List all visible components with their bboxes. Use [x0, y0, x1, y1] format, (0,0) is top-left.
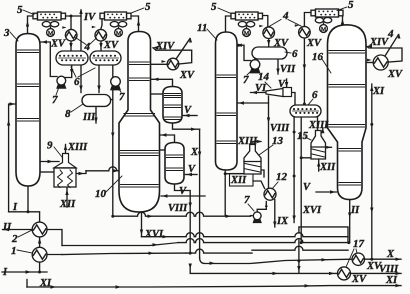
wire drum 6b drain a: [293, 117, 295, 223]
wire exchanger 4a top stub: [70, 16, 72, 30]
wire X line vertical: [199, 129, 201, 258]
svg-text:XI: XI: [39, 278, 52, 289]
wire stripper B bottoms: [175, 184, 191, 253]
wire column 16 draw to exchanger 16: [366, 62, 374, 64]
wire XIV return arrow into column 10: [153, 46, 159, 49]
pump 7a: [57, 83, 65, 88]
exchanger 1: [32, 247, 47, 262]
wire stripper A bottoms to X line: [173, 123, 200, 129]
svg-text:II: II: [350, 205, 360, 216]
wire furnace 13 outlet: [253, 170, 265, 189]
svg-text:7: 7: [52, 94, 58, 106]
svg-text:V: V: [188, 164, 196, 175]
svg-text:7: 7: [243, 74, 249, 86]
svg-text:VIII: VIII: [379, 264, 399, 275]
svg-text:6: 6: [292, 48, 298, 60]
condenser 5d: [311, 10, 316, 16]
wire exchanger 4b to drum B: [100, 42, 102, 52]
stripper 14b trays: [167, 154, 183, 156]
wire exchanger 4a to drum A: [70, 42, 72, 52]
wire bus B corner up: [299, 227, 348, 243]
svg-text:M: M: [48, 31, 54, 37]
wire flue XIII furnace 15: [322, 128, 324, 132]
svg-text:10: 10: [95, 188, 107, 200]
svg-text:XIII: XIII: [308, 120, 329, 131]
wire column 10 overhead riser: [131, 16, 139, 33]
wire XI riser right: [371, 84, 373, 259]
pump 7d: [253, 218, 260, 222]
svg-text:17: 17: [353, 238, 365, 250]
wire exchanger 2 to left riser: [9, 212, 40, 222]
column 10 tower: [119, 32, 160, 213]
wire drum 6b drain b: [300, 117, 302, 243]
svg-text:XV: XV: [366, 261, 382, 272]
wire steam XII into furnace 15: [318, 160, 320, 171]
wire column 11 bottoms to furnace 13: [225, 173, 244, 175]
wire pump 7d discharge to exchanger 12: [257, 202, 266, 213]
condenser 5a: [33, 13, 38, 19]
svg-text:II: II: [2, 222, 12, 233]
stripper 14b: [165, 143, 184, 185]
condenser 5b: [100, 13, 105, 19]
svg-text:V: V: [303, 182, 311, 193]
wire column 3 to reboiler: [40, 161, 59, 163]
wire column 10 draw to stripper A: [151, 93, 164, 95]
wire bus C continued: [186, 249, 252, 253]
wire drum 8 to pump line: [110, 99, 113, 101]
svg-text:XII: XII: [59, 199, 76, 210]
wire drum A to drum 8: [80, 65, 82, 93]
wire bus C: [62, 253, 186, 254]
drum 6b: [290, 105, 321, 117]
wire feed I inlet bottom left: [2, 271, 47, 273]
condenser 5c: [231, 13, 236, 19]
exchanger 17a: [352, 253, 364, 265]
svg-text:5: 5: [17, 4, 23, 16]
wire line y215.6 into pump 7d: [251, 215, 253, 217]
wire exchanger 4d to drum 6b: [303, 38, 305, 105]
svg-text:XIV: XIV: [155, 41, 175, 52]
reboiler 9 neck: [54, 154, 76, 168]
wire bus XVI: [142, 233, 349, 237]
svg-text:IV: IV: [83, 12, 96, 23]
svg-text:12: 12: [276, 171, 288, 183]
svg-text:5: 5: [145, 1, 151, 13]
wire pump 7c reflux to column 11: [235, 45, 251, 60]
svg-text:XV: XV: [387, 69, 403, 80]
wire bus C right part: [252, 246, 348, 250]
svg-text:5: 5: [211, 1, 217, 13]
fan and motor 5d: [315, 18, 323, 23]
svg-text:XV: XV: [103, 40, 119, 51]
wire bus B hot stream: [62, 243, 178, 246]
svg-text:V: V: [184, 105, 192, 116]
wire column 11 side line: [237, 102, 269, 104]
wire steam V into stripper A: [183, 115, 197, 117]
wire exchanger to loop right side: [156, 50, 192, 64]
wire XIV return bend: [153, 48, 156, 50]
wire line y216: [113, 212, 251, 216]
reflux drum 6a: [252, 47, 287, 59]
svg-text:XV: XV: [351, 274, 367, 285]
wire product II from exchanger 2: [3, 229, 33, 231]
stripper 14a trays: [165, 93, 181, 95]
svg-text:M: M: [244, 31, 250, 37]
svg-text:4: 4: [84, 41, 91, 53]
pump 7c: [250, 67, 259, 73]
wire drum B to drum 8: [98, 65, 100, 93]
svg-text:6: 6: [74, 76, 80, 88]
wire exchanger 16 loop: [367, 46, 403, 62]
svg-text:XVI: XVI: [302, 205, 322, 216]
column 11: [216, 32, 238, 170]
wire steam V into column 10: [161, 195, 205, 197]
wire exchanger 4d feed: [304, 13, 311, 27]
svg-text:3: 3: [3, 27, 10, 39]
svg-text:X: X: [190, 147, 199, 158]
column 16 trays upper: [329, 50, 365, 52]
column 3 trays: [18, 49, 39, 51]
wire VIII line down to exchanger 12: [268, 96, 270, 188]
exchanger 12: [264, 188, 276, 200]
svg-text:XII: XII: [319, 162, 336, 173]
svg-text:7: 7: [244, 194, 250, 206]
column 11 trays: [217, 74, 236, 76]
fan and motor 5b: [110, 22, 118, 27]
column 16 tower: [328, 25, 367, 200]
node bus C x190: [189, 252, 192, 255]
svg-text:5: 5: [348, 0, 354, 11]
svg-text:M: M: [116, 31, 122, 37]
wire reboiler return to column 3: [40, 171, 54, 173]
wire steam V into ejector: [286, 79, 288, 88]
wire exchanger 1 riser: [39, 262, 41, 272]
wire exchanger 2 right to bus B: [47, 230, 62, 246]
wire column 10 draw to stripper B: [160, 149, 167, 151]
wire product III from drum 8: [95, 107, 97, 123]
svg-text:1: 1: [11, 245, 17, 257]
wire column 11 bottoms: [224, 170, 226, 216]
svg-text:VIII: VIII: [270, 123, 290, 134]
svg-text:8: 8: [65, 108, 71, 120]
wire bus B continued: [178, 239, 348, 243]
svg-text:V: V: [179, 186, 187, 197]
svg-text:XV: XV: [50, 39, 66, 50]
svg-text:XIV: XIV: [369, 37, 389, 48]
svg-text:VII: VII: [280, 64, 296, 75]
wire riser x298.9 down to bus VIII: [298, 240, 300, 273]
reboiler 9 box: [54, 168, 76, 187]
wire condenser 2 left cap to exchanger 4b: [101, 20, 102, 29]
exchanger 4c: [263, 27, 275, 39]
exchanger 4b: [95, 29, 107, 41]
wire steam V into stripper B: [186, 174, 198, 176]
wire column 3 overhead riser: [28, 16, 34, 35]
wire branch to furnace 15 left: [301, 157, 311, 159]
wire furnace 15 to column 16: [326, 146, 332, 148]
wire reboiler vapor XIII: [65, 145, 67, 154]
wire bus F stream XI: [27, 286, 401, 287]
wire pump 7c suction: [254, 59, 256, 60]
furnace 15: [311, 131, 326, 160]
pump 7b: [111, 84, 120, 90]
wire left riser to column 3 feed: [9, 104, 16, 212]
svg-text:X: X: [386, 249, 395, 260]
svg-text:9: 9: [47, 140, 53, 152]
wire pump 7a reflux to column 3: [40, 42, 57, 77]
wire product VII from drum 6a: [277, 59, 279, 74]
exchanger 2: [32, 222, 47, 237]
wire drum A bottoms to pump 7a: [65, 64, 72, 78]
wire exchanger 4c to drum 6a: [268, 39, 270, 48]
svg-text:V: V: [278, 79, 286, 90]
column 10 trays lower: [121, 150, 159, 152]
wire between exchangers 1 and 2: [39, 237, 41, 248]
svg-text:M: M: [321, 27, 327, 33]
wire reboiler outlet right: [76, 171, 86, 174]
svg-text:XVI: XVI: [144, 229, 164, 240]
svg-text:11: 11: [197, 22, 207, 34]
svg-text:VI: VI: [255, 83, 267, 94]
column 10 trays upper: [130, 61, 150, 63]
svg-text:XI: XI: [385, 275, 398, 286]
ejector 14: [266, 89, 283, 97]
exchanger 4e column 10 loop: [167, 58, 179, 70]
wire column 11 overhead riser: [226, 16, 232, 34]
wire condenser 1 outlet: [66, 16, 82, 51]
fan and motor 5c: [238, 22, 246, 27]
wire column 10 bottoms nozzle: [141, 211, 143, 237]
wire column 16 overhead riser: [342, 17, 344, 26]
svg-text:14: 14: [258, 71, 270, 83]
svg-text:XII: XII: [230, 175, 247, 186]
node column 3 bottoms junction: [27, 186, 29, 212]
wire condenser 3 outlet: [263, 16, 268, 28]
wire bus E to VIII outlet: [351, 272, 402, 274]
svg-text:XIII: XIII: [67, 142, 88, 153]
wire product IV arrow up: [80, 10, 82, 16]
wire XIV arrow into column 16: [367, 45, 373, 48]
wire pump 7b discharge down: [112, 88, 114, 216]
column 3: [16, 34, 40, 186]
wire column 10 draw to exchanger: [152, 63, 168, 65]
svg-text:IX: IX: [276, 216, 289, 227]
wire diagonal pointer 4 column 10: [176, 39, 190, 60]
exchanger 4a: [65, 29, 77, 41]
wire steam V into column 16: [316, 191, 337, 193]
column 16 trays lower: [339, 148, 361, 150]
svg-text:4: 4: [282, 10, 289, 22]
wire drum 6b to furnace 15: [317, 117, 319, 131]
svg-text:XV: XV: [273, 38, 289, 49]
svg-text:XI: XI: [372, 86, 385, 97]
exchanger 4f column 16 loop: [373, 55, 388, 70]
wire column 16 bottoms II: [349, 200, 351, 243]
wire stripper B vapor to column 10: [160, 135, 175, 143]
fan and motor 5a: [42, 22, 50, 27]
wire VI from ejector: [251, 92, 267, 94]
wire bus F left riser: [26, 280, 28, 288]
wire drum B bottoms to pump 7b: [112, 65, 114, 77]
wire bus D stream X: [200, 258, 352, 264]
svg-text:16: 16: [312, 51, 324, 63]
svg-text:15: 15: [297, 130, 309, 142]
wire bus D to X outlet: [365, 258, 402, 260]
wire stripper A vapor to column 10: [152, 79, 173, 86]
arrow bus XVI: [163, 235, 169, 238]
reflux drum B: [90, 51, 121, 65]
svg-text:XV: XV: [306, 38, 322, 49]
svg-text:2: 2: [11, 233, 18, 245]
exchanger 17b: [338, 267, 351, 280]
wire bus E stream VIII: [190, 266, 337, 273]
svg-text:VIII: VIII: [168, 203, 188, 214]
wire XII box around label: [230, 174, 254, 187]
furnace 13: [244, 145, 261, 175]
svg-text:13: 13: [272, 135, 284, 147]
svg-text:7: 7: [119, 91, 125, 103]
wire ejector outlet to drum 6b: [292, 93, 296, 105]
wire flue XIII furnace 13: [253, 142, 261, 145]
svg-text:XIII: XIII: [237, 136, 258, 147]
wire diagonal pointer 4 column 16: [385, 35, 399, 57]
wire feed into column 10: [86, 167, 119, 171]
wire steam XII into reboiler: [66, 188, 68, 207]
reflux drum A: [56, 51, 88, 65]
exchanger 4d: [299, 26, 311, 38]
wire exchanger 1 right to bus C: [47, 254, 62, 256]
stripper 14a: [163, 87, 182, 124]
svg-text:XV: XV: [179, 70, 195, 81]
svg-text:III: III: [82, 112, 96, 123]
wire exchanger 12 outlet IX: [274, 200, 276, 228]
water drum 8: [82, 95, 111, 107]
